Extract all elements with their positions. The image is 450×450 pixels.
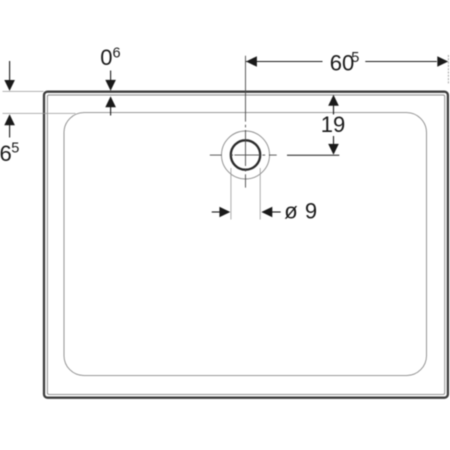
svg-text:6: 6	[113, 45, 121, 61]
svg-text:0: 0	[100, 45, 112, 70]
svg-text:9: 9	[305, 199, 317, 224]
svg-text:19: 19	[321, 112, 345, 137]
svg-text:6: 6	[0, 141, 12, 166]
svg-text:5: 5	[351, 50, 359, 66]
svg-text:5: 5	[11, 141, 19, 157]
svg-text:ø: ø	[284, 199, 297, 224]
